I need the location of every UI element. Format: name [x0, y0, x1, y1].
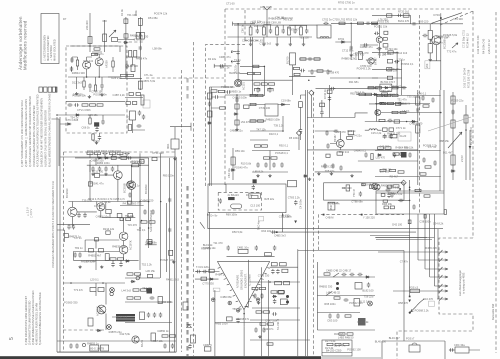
- legend box: [41, 14, 59, 64]
- tall resistor R32: [141, 95, 144, 105]
- svg-text:L21: L21: [126, 115, 130, 120]
- svg-text:R4B65 2,2k: R4B65 2,2k: [436, 35, 450, 39]
- node D704: [440, 17, 442, 19]
- resistor R234: [135, 273, 141, 275]
- wire disc row6: [252, 150, 290, 152]
- box Rsw2: [355, 283, 362, 290]
- svg-text:C4B76 100: C4B76 100: [91, 158, 105, 162]
- curved drop wire: [411, 299, 425, 312]
- capacitor C4B5: [271, 230, 276, 233]
- node row2: [350, 23, 352, 25]
- node D+: [207, 214, 209, 216]
- wire row 103r: [375, 103, 430, 105]
- svg-text:T52 2,2k: T52 2,2k: [142, 262, 153, 266]
- resistor R4T4: [284, 281, 290, 284]
- svg-text:R34 12k: R34 12k: [334, 332, 344, 336]
- audio block vertical stubs: [57, 153, 161, 278]
- resistor left of bus: [299, 102, 303, 108]
- svg-text:Modifications reserved: Modifications reserved: [23, 20, 28, 70]
- node IF in: [237, 23, 239, 25]
- resistor R26: [128, 74, 134, 76]
- svg-text:L58 68n: L58 68n: [153, 47, 163, 51]
- resistor R87: [347, 137, 353, 140]
- ground G3: [100, 93, 103, 96]
- capacitor C4B8: [387, 193, 390, 198]
- svg-text:T56 22u: T56 22u: [364, 295, 374, 299]
- chassis thin dashed upper: [181, 70, 183, 352]
- svg-text:C77 1n: C77 1n: [428, 145, 437, 149]
- test circle t1: [136, 276, 139, 279]
- resistor R4B12b: [390, 206, 394, 209]
- wire rect box: [322, 352, 352, 354]
- capacitor C230: [128, 192, 131, 197]
- diode D203: [125, 260, 130, 262]
- capacitor C723: [408, 152, 411, 157]
- svg-text:BL61 470: BL61 470: [398, 19, 410, 23]
- svg-text:T39 2,2k: T39 2,2k: [274, 123, 285, 127]
- value labels IF center: [321, 92, 423, 179]
- chassis dash-dot line center: [186, 186, 188, 356]
- transistor T74 internals: [377, 110, 380, 114]
- wire right mid: [360, 44, 378, 46]
- resistor R88: [337, 152, 343, 155]
- resistor R104b: [378, 147, 384, 149]
- svg-text:R4B51 4k7: R4B51 4k7: [88, 253, 101, 257]
- resistor R95: [416, 125, 420, 133]
- terminal circle o3: [82, 343, 85, 346]
- svg-text:POS74 12k: POS74 12k: [154, 12, 168, 16]
- capacitor C73: [293, 28, 296, 33]
- arrow line 1: [378, 250, 448, 254]
- capacitor C50: [196, 270, 201, 273]
- box on chassis line: [183, 302, 188, 310]
- resistor R715: [383, 38, 387, 41]
- wire disc node up: [282, 116, 284, 131]
- audio block mid caps: [139, 209, 155, 228]
- resistor R25: [121, 74, 127, 76]
- wire osc bus down: [440, 24, 442, 90]
- capacitor Csd3: [390, 192, 393, 197]
- wire afl row4: [250, 339, 310, 341]
- transistor T85 internals: [122, 247, 126, 253]
- capacitor C724: [451, 109, 454, 114]
- box on chassis line 2: [191, 335, 196, 343]
- svg-text:C64 10u: C64 10u: [227, 168, 231, 178]
- bus to tuning unit horizontal pair: [376, 238, 432, 240]
- top row boxes: [368, 87, 404, 89]
- tuner wire column 2: [139, 17, 141, 90]
- node lower rail: [308, 79, 310, 81]
- svg-text:R33 47n: R33 47n: [201, 246, 211, 250]
- antenna wire A: [89, 13, 91, 46]
- wire MD down: [174, 149, 176, 157]
- svg-text:T72 47n: T72 47n: [447, 50, 457, 54]
- dash line C-D: [419, 15, 421, 214]
- svg-text:R4B29 220: R4B29 220: [321, 165, 335, 169]
- dot curved end: [409, 312, 411, 314]
- svg-text:CT70 330: CT70 330: [202, 282, 214, 286]
- capacitor C77: [350, 45, 353, 50]
- resistor R703 box: [358, 52, 362, 60]
- diagonal wire bl corner: [200, 222, 205, 229]
- capacitor C25: [142, 114, 145, 119]
- resistor R83: [392, 87, 398, 89]
- IF transformer box BL701: [317, 25, 331, 38]
- arrow line 5: [434, 284, 448, 288]
- capacitor C213: [78, 252, 81, 257]
- wire rd col: [236, 95, 238, 130]
- svg-text:1) MIT NORMALWERT 2 IN UND VER: 1) MIT NORMALWERT 2 IN UND VERSCHIEDENE …: [20, 100, 24, 167]
- value labels bc238 area: [419, 17, 464, 54]
- resistor R52: [280, 263, 287, 266]
- gray label POS170a: [213, 288, 220, 291]
- resistor R716: [383, 44, 388, 47]
- svg-text:R4B92 330: R4B92 330: [319, 284, 333, 288]
- right verticals x140: [139, 153, 141, 270]
- resistor R43: [201, 277, 207, 280]
- switch contact sw2: [326, 292, 332, 296]
- dashed divider with nodes: [319, 215, 405, 250]
- ground D709: [308, 178, 311, 181]
- svg-text:R4B20 100n: R4B20 100n: [266, 118, 281, 122]
- box R218: [106, 210, 111, 214]
- long wire lower: [273, 231, 416, 233]
- transistor T72: [376, 37, 382, 43]
- resistor R9: [97, 104, 103, 106]
- svg-text:C4B4 68n: C4B4 68n: [145, 241, 157, 245]
- capacitor C214: [111, 262, 114, 267]
- bus components resistor Rb1: [207, 93, 212, 99]
- electrolytic pair sw2: [336, 287, 339, 290]
- resistor R73: [288, 27, 291, 35]
- resistor R92: [393, 153, 399, 155]
- resistor R217: [128, 214, 133, 217]
- node rd: [236, 94, 238, 96]
- box C4B1: [238, 249, 248, 253]
- terminal bar antenna B: [102, 20, 106, 22]
- wire sw row2: [317, 295, 375, 297]
- svg-text:CT12 68n: CT12 68n: [342, 48, 354, 52]
- electrolytic pair afl: [286, 295, 289, 298]
- svg-text:T83 100: T83 100: [299, 36, 309, 40]
- wire R706: [240, 65, 264, 67]
- ground rd: [235, 128, 238, 131]
- resistor Rsd4: [393, 185, 399, 187]
- dashed border tuning-unit notch: [397, 238, 473, 359]
- vertical left amp: [214, 290, 216, 356]
- capacitor C730: [328, 96, 331, 101]
- capacitor C3: [88, 83, 91, 88]
- resistor R33: [128, 125, 131, 131]
- wire left rail 224: [57, 224, 90, 226]
- wire vertical pair a: [396, 52, 398, 95]
- capacitor C19: [411, 22, 416, 25]
- node apex: [243, 313, 245, 315]
- main vertical bus pair mid-right: [306, 90, 308, 356]
- wire x90 col: [89, 160, 91, 200]
- capacitor Csw2: [349, 273, 354, 276]
- right column x417: [417, 90, 419, 185]
- svg-text:R4,7k R503 756: R4,7k R503 756: [123, 201, 142, 205]
- dark component M3: [401, 152, 407, 158]
- svg-text:CT1 60: CT1 60: [226, 2, 235, 6]
- electrolytic pair afl2: [286, 301, 289, 304]
- svg-text:R95 100n: R95 100n: [163, 173, 175, 177]
- resistor R66: [231, 157, 235, 165]
- bus side resistor Rb3: [220, 107, 226, 109]
- capacitor Cafl4: [254, 327, 257, 332]
- svg-text:L55 5,6k: L55 5,6k: [400, 101, 411, 105]
- resistor R201: [87, 152, 93, 154]
- wire top rail: [70, 45, 120, 47]
- svg-text:C4B1 5: C4B1 5: [203, 343, 212, 347]
- svg-text:240-300: 240-300: [85, 20, 89, 30]
- resistor C209 box: [117, 214, 122, 218]
- resistor R101b: [392, 111, 398, 113]
- CRC box: [455, 347, 469, 353]
- svg-text:C4B71 5,6k: C4B71 5,6k: [142, 79, 156, 83]
- box X sd: [369, 185, 373, 189]
- capacitor C102: [272, 162, 275, 167]
- resistor R21: [124, 34, 128, 38]
- svg-text:T80 15k: T80 15k: [404, 146, 414, 150]
- diode D708: [377, 154, 382, 156]
- svg-text:R4B35 68n: R4B35 68n: [112, 245, 126, 249]
- power supply box outline: [382, 341, 445, 359]
- resistor R707: [248, 72, 254, 74]
- filled triangle marker: [469, 146, 472, 149]
- ratio detector inner dashed box: [218, 192, 261, 210]
- capacitor Ckt2: [252, 185, 255, 190]
- dashed page border right: [495, 12, 497, 353]
- svg-text:C38 100n: C38 100n: [419, 220, 431, 224]
- svg-text:L52 470: L52 470: [241, 120, 251, 124]
- value labels driver area: [381, 184, 444, 227]
- svg-text:D51 68n: D51 68n: [148, 16, 158, 20]
- chassis dash-dot line mid-right: [313, 92, 315, 356]
- node right long: [358, 77, 360, 79]
- wire to mixer out: [118, 39, 136, 41]
- pot arrow driver: [397, 188, 401, 193]
- node R706: [264, 66, 266, 68]
- resistor R226: [147, 240, 152, 244]
- vertical apex down: [243, 326, 245, 356]
- resistor R206: [121, 156, 127, 159]
- box C4B7: [408, 220, 411, 224]
- output transformer core: [116, 314, 135, 322]
- vertical v434: [433, 214, 435, 286]
- node x466: [465, 129, 467, 131]
- svg-text:C19 68n: C19 68n: [281, 98, 291, 102]
- driver stage box: [376, 191, 444, 214]
- svg-text:BL704 C717: BL704 C717: [381, 80, 396, 84]
- capacitor C23: [136, 124, 141, 127]
- svg-text:T31 47n: T31 47n: [397, 97, 407, 101]
- resistor Rsw6: [339, 333, 345, 335]
- diode D64: [231, 169, 236, 171]
- capacitor C207: [127, 156, 132, 159]
- resistor R77: [372, 22, 378, 24]
- resistor R107b: [390, 169, 396, 171]
- transistor T88: [127, 181, 134, 188]
- capacitor C211: [72, 224, 75, 229]
- rail 150: [307, 149, 418, 151]
- coil L706: [379, 103, 385, 104]
- screw terminal S4: [256, 298, 260, 302]
- resistor R97: [385, 94, 391, 96]
- resistor R28: [129, 93, 133, 96]
- antenna symbol: [264, 7, 271, 26]
- svg-text:2) PUSHBUTTON UKW DEPRESSED: 2) PUSHBUTTON UKW DEPRESSED: [28, 301, 32, 345]
- svg-text:CT71 1k: CT71 1k: [396, 126, 407, 130]
- svg-text:3-32 Dr705 C44: 3-32 Dr705 C44: [476, 35, 480, 54]
- svg-text:D2 22u: D2 22u: [208, 57, 217, 61]
- resistor R4723: [388, 51, 393, 54]
- capacitor C722: [393, 152, 396, 157]
- value labels right mid: [380, 91, 464, 171]
- capacitor C215: [119, 262, 122, 267]
- capacitor C6: [74, 103, 79, 106]
- transistor T2 internals: [98, 59, 102, 65]
- IF mid extra row a: [299, 57, 321, 60]
- dashed border FM front-end box: [66, 46, 127, 133]
- arrow line 2: [418, 258, 448, 262]
- svg-text:BL84 10k: BL84 10k: [229, 71, 241, 75]
- svg-text:C4B10 47n: C4B10 47n: [430, 41, 444, 45]
- capacitor C731: [320, 110, 323, 115]
- vertical x470: [469, 130, 471, 180]
- capacitor C52: [271, 269, 274, 274]
- capacitor C209a: [77, 213, 80, 218]
- wire T82 T83: [72, 202, 100, 227]
- capacitor C4: [100, 83, 103, 88]
- resistor R4B 26k: [383, 200, 388, 202]
- wire rail 278: [125, 277, 160, 279]
- dark diode pair BA124: [228, 197, 235, 200]
- wire column down: [263, 66, 265, 95]
- gray ref box kt: [259, 217, 264, 221]
- capacitor C79: [300, 69, 305, 72]
- wire rd top: [225, 94, 258, 96]
- svg-text:R4B35 220: R4B35 220: [387, 132, 401, 136]
- svg-text:R80 47n: R80 47n: [94, 52, 104, 56]
- capacitor C212: [73, 252, 76, 257]
- resistor R27: [138, 81, 142, 89]
- capacitor C734: [383, 134, 386, 139]
- node 440: [440, 112, 442, 114]
- resistor R212v: [88, 182, 92, 186]
- diode D706: [373, 93, 378, 95]
- value labels IF right: [328, 45, 377, 94]
- svg-text:64-20: 64-20: [400, 134, 407, 138]
- resistor R60: [211, 90, 217, 92]
- wire disc row3: [250, 120, 266, 122]
- svg-text:T73 47n: T73 47n: [74, 288, 84, 292]
- resistor R4: [112, 61, 114, 67]
- wire rail 217: [102, 217, 136, 219]
- wire disc row1: [250, 95, 265, 97]
- wire T72 top: [378, 25, 380, 58]
- svg-text:C34 8,2k: C34 8,2k: [433, 221, 444, 225]
- capacitor crc: [449, 348, 454, 351]
- resistor R72: [276, 27, 279, 35]
- svg-text:MD1: MD1: [166, 143, 170, 149]
- svg-text:BL41 1n: BL41 1n: [220, 65, 230, 69]
- wire bottom rail: [316, 88, 379, 90]
- diode D701: [341, 41, 346, 43]
- ground IF3: [350, 174, 353, 177]
- svg-text:D53 100: D53 100: [328, 319, 338, 323]
- stub bar C61: [232, 60, 236, 63]
- capacitor C219: [69, 343, 72, 348]
- wire row R717: [372, 68, 402, 70]
- main vertical bus center lower: [209, 212, 211, 345]
- svg-text:BL88 330: BL88 330: [127, 64, 139, 68]
- wire sw row3: [317, 312, 360, 314]
- capacitor C61: [236, 60, 239, 65]
- triangle left edge hatch ticks: [218, 268, 241, 308]
- wire rail 283: [63, 282, 125, 284]
- wire mid rail: [289, 76, 316, 78]
- transistor T81: [127, 181, 136, 190]
- svg-text:R80 10k: R80 10k: [381, 89, 391, 93]
- svg-text:R4B80 8,2k: R4B80 8,2k: [342, 57, 356, 61]
- svg-text:BC303B: BC303B: [123, 183, 127, 193]
- svg-text:D31 1n: D31 1n: [388, 191, 397, 195]
- capacitor C736: [364, 152, 367, 157]
- dashed border IF amplifier block top edge: [225, 8, 470, 10]
- svg-text:R10 3n3: R10 3n3: [83, 59, 93, 63]
- transistor T81 internals: [130, 182, 134, 188]
- diode D210: [209, 278, 214, 280]
- diamond TP3: [401, 180, 406, 185]
- lamp LA1: [110, 288, 115, 293]
- gray ref box: [425, 61, 430, 69]
- resistor R86: [348, 131, 354, 135]
- node audio row2: [118, 157, 120, 159]
- value labels kt area: [226, 193, 300, 234]
- svg-text:R4B76 22u: R4B76 22u: [109, 330, 123, 334]
- resistor R29: [136, 93, 140, 96]
- column wire x329: [329, 85, 331, 118]
- arrow line POS: [393, 289, 448, 293]
- svg-text:D42 100: D42 100: [392, 223, 402, 227]
- node C61a: [231, 61, 233, 63]
- wire crc: [449, 349, 480, 351]
- capacitor C49: [273, 245, 276, 250]
- svg-text:C4B5 3n3: C4B5 3n3: [274, 234, 286, 238]
- wire varicap: [126, 57, 140, 65]
- resistor Rsw1: [324, 273, 330, 275]
- transistor T75 internals: [376, 185, 379, 189]
- resistor R219: [64, 234, 68, 238]
- svg-text:C49 330: C49 330: [380, 145, 390, 149]
- node v408 end: [409, 296, 411, 298]
- wire afl row1: [250, 281, 300, 283]
- svg-text:C702 3n C703 L702 R702 12k: C702 3n C703 L702 R702 12k: [322, 17, 358, 21]
- svg-text:Y 150 220: Y 150 220: [363, 215, 375, 219]
- resistor Rafl8: [268, 323, 274, 325]
- column x453: [452, 92, 454, 180]
- resistor R70: [249, 27, 252, 35]
- svg-text:R82 100: R82 100: [350, 92, 360, 96]
- coil box Lkt: [249, 193, 260, 198]
- transistor T60 internals: [237, 81, 240, 85]
- svg-text:CT43 330: CT43 330: [258, 274, 270, 278]
- wire T73 base: [330, 131, 340, 150]
- svg-text:R69 100n: R69 100n: [226, 212, 238, 216]
- main rail 201: [68, 201, 148, 203]
